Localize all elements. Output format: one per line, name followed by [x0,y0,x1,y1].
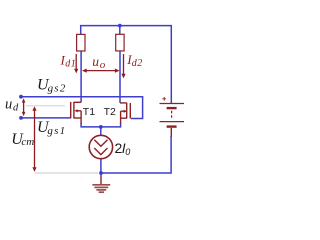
svg-text:o: o [100,59,106,71]
svg-text:gs1: gs1 [47,125,66,137]
svg-text:u: u [5,96,12,112]
svg-text:0: 0 [125,147,130,157]
svg-text:T2: T2 [104,106,116,118]
svg-text:u: u [92,54,99,69]
svg-text:d: d [13,103,19,114]
svg-text:d1: d1 [65,59,76,70]
svg-text:cm: cm [21,136,34,148]
svg-text:T1: T1 [83,106,95,118]
svg-text:gs2: gs2 [48,83,67,95]
svg-text:d2: d2 [132,58,143,69]
